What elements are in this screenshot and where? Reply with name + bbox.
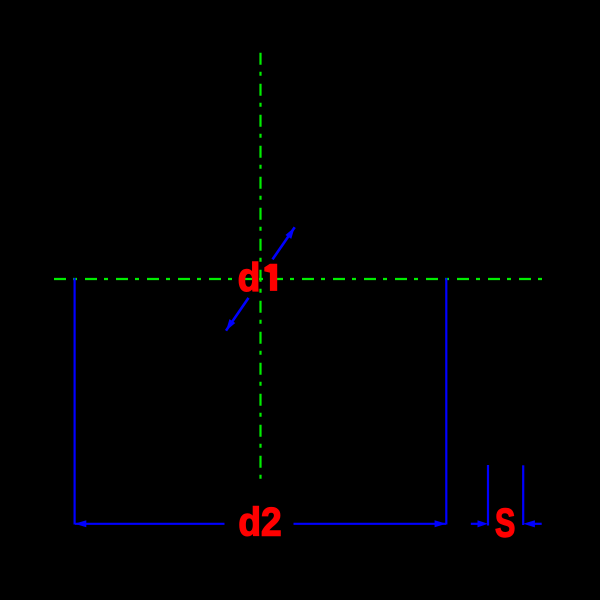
svg-text:d2: d2 [238, 500, 281, 544]
svg-text:S: S [495, 502, 515, 546]
svg-text:d: d [238, 256, 261, 300]
